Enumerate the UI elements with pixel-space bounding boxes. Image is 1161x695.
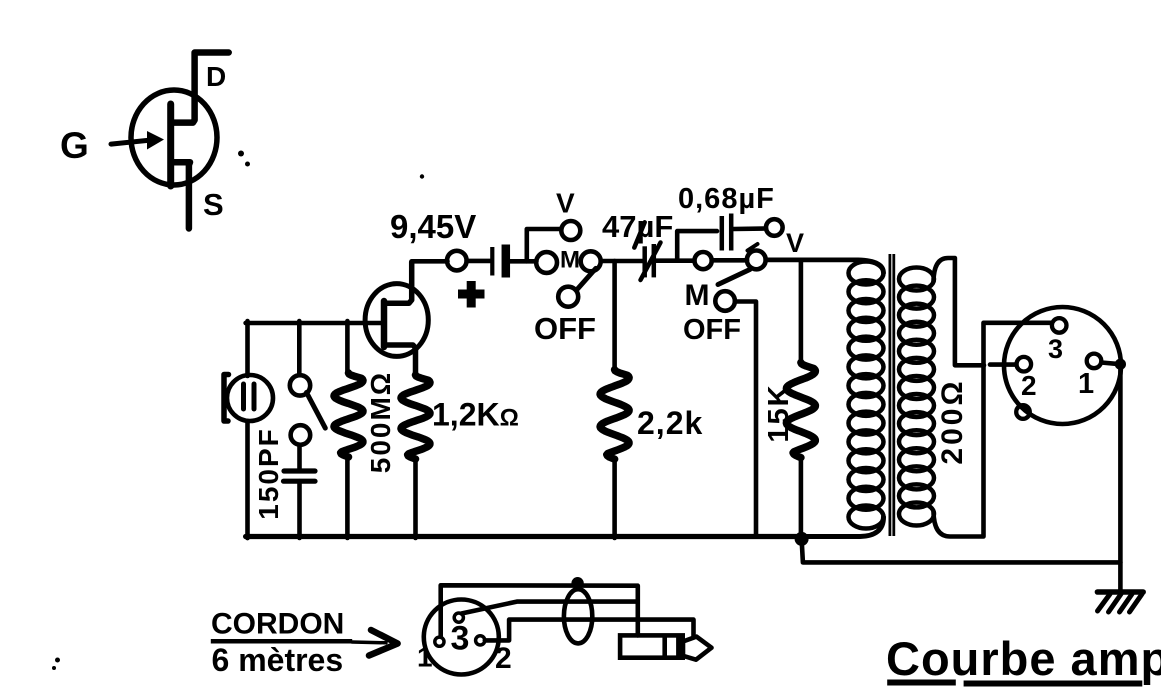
transformer primary winding (coil) [849,262,884,285]
ink speck near battery label [420,174,424,178]
svg-text:0,68µF: 0,68µF [678,183,775,215]
terminal circle V (switch 2) [766,219,783,236]
cord wire 1: pin 1 up and over to jack sleeve [441,585,638,636]
cord plug: body circle [424,600,499,675]
cord plug pin 2 (circle) [476,636,485,645]
svg-text:M: M [560,247,580,274]
switch S arm (open blade) [307,393,326,429]
switch 2 contact OFF (circle) [715,291,735,311]
svg-text:OFF: OFF [683,314,741,346]
transformer core (double line) [889,254,892,536]
svg-text:OFF: OFF [534,311,596,346]
wire: M contact to pole (switch 2) [712,258,747,263]
arrow to cord drawing [352,640,386,644]
switch 1 contact M (circle) [536,252,557,273]
ground symbol: bar [1097,589,1143,595]
cord plug pin 3 (circle) [454,613,463,622]
DIN socket: body circle [1004,307,1121,424]
transistor pictorial: source lead [171,162,190,228]
wire: earth return rail (lower) [802,539,1121,563]
transistor FET: source lead [384,345,416,376]
cord wire 2: pin 3 to jack (middle conductor) [462,602,637,614]
transistor FET (in circuit): body circle [365,284,428,357]
wire: drain to battery terminal [412,259,448,264]
cord plug pin 1 (circle) [435,637,444,646]
switch S contact (upper circle) [290,375,310,395]
switch 1 contact OFF (circle) [558,287,578,307]
microphone: front bracket [224,375,229,422]
capacitor 47uF: polarity slash [641,243,661,281]
wire: branch up to 0,68uF [677,231,717,261]
resistor 1,2K ohm: zigzag body [401,375,430,459]
ink specks near pictorial [238,151,244,157]
switch 2 contact M (circle) [695,252,712,269]
svg-text:3: 3 [451,620,470,658]
resistor 500M ohm: zigzag body [334,373,363,457]
svg-text:9,45V: 9,45V [390,208,476,245]
transistor pictorial: channel bar [167,104,174,186]
resistor 1,2K ohm: bottom wire [413,459,418,538]
svg-text:3: 3 [1048,334,1063,364]
resistor 2,2k: bottom wire [612,459,617,538]
caption underline [887,680,956,686]
junction dot (15K / rail / earth return) [795,532,809,546]
wire: 47uF to switch 2 [656,258,694,263]
jack plug: body [620,635,683,657]
transistor FET: channel bar [381,301,388,347]
wire: mic branch vertical (lower) [245,421,250,538]
resistor 15K: zigzag body [786,363,815,458]
junction dot on cord wire 1 [571,577,583,589]
svg-text:CORDON: CORDON [211,608,344,641]
wire: terminal to battery [467,259,490,264]
svg-text:500MΩ: 500MΩ [365,371,396,474]
wire: switch branch vertical (upper) [297,321,302,375]
transistor pictorial: gate lead with arrow [111,140,149,144]
wire: branch up to V contact (switch 1) [527,229,562,261]
wire: mic branch vertical (upper) [245,321,250,376]
polarity + sign [458,290,485,299]
svg-text:150PF: 150PF [253,427,284,520]
resistor 500M ohm: bottom wire [345,457,350,538]
transformer secondary winding (coil) [899,268,934,291]
microphone: element bars [241,384,246,409]
switch 1 blade to OFF [578,268,596,289]
resistor 15K: bottom wire [799,458,804,539]
battery 9,45V: thin plate [490,247,494,276]
DIN socket pin 2 (circle) [1017,357,1032,372]
svg-text:V: V [556,188,575,219]
wire: gate rail (top-left horizontal) [246,321,384,326]
wire: bottom rail (ground bus) [246,534,802,539]
svg-text:D: D [206,61,226,92]
ink speck bottom-left [55,658,60,663]
svg-text:V: V [786,228,804,258]
capacitor 47uF: plates [642,246,647,277]
switch S contact (lower circle) [291,425,311,445]
underline CORDON [211,639,352,644]
svg-text:G: G [60,125,89,166]
wire: secondary top to pin 2 (crosses pin-3 wire) [934,258,985,365]
svg-text:6 mètres: 6 mètres [212,642,344,678]
cord wire 3: pin 2 to jack tip conductor [485,620,694,641]
wire: battery to switch 1 [510,259,536,264]
ground symbol: hatching [1098,594,1111,611]
svg-text:1: 1 [1078,368,1094,400]
DIN socket cable notch (small circle) [1016,405,1030,419]
svg-text:2: 2 [1021,370,1037,401]
wire: capacitor to bottom rail [297,481,302,538]
switch 1 contact V (circle) [561,221,580,240]
svg-text:47µF: 47µF [602,209,673,244]
terminal circle at drain [447,251,467,271]
wire: bottom rail to primary [802,517,884,537]
svg-text:M: M [685,279,710,312]
transistor pictorial: drain lead [171,53,229,123]
wire: secondary bottom to pin 3 [934,323,1052,537]
svg-text:15K: 15K [763,383,795,442]
wire: drop to 15K resistor [799,260,804,363]
transistor pictorial: FET symbol body circle (top-left legend) [131,90,217,185]
wire: OFF contact down to bottom rail [735,302,756,537]
DIN socket pin 3 (circle) [1052,318,1067,333]
svg-text:2,2k: 2,2k [637,405,703,441]
capacitor 0,68uF: plates [720,216,725,251]
capacitor 47uF: stray pen stroke [634,222,644,247]
resistor 2,2k: zigzag body [600,370,629,459]
wire: 0,68uF to V terminal [734,226,767,231]
microphone: body circle [227,375,273,421]
jack plug: tip [683,637,712,660]
wire: left rail corner [246,537,248,539]
switch 2 blade (open, toward OFF) [718,270,750,285]
wire: drop to 2,2k resistor [612,261,617,370]
wire: switch to capacitor [297,445,302,470]
junction dot (pin 1 / earth wire) [1115,359,1126,370]
resistor 500M ohm: top wire [345,321,350,373]
svg-text:S: S [203,187,224,222]
wire: switch 1 pole to 47uF [601,259,643,264]
cable sheath ellipse [564,589,592,643]
wire: switch 2 pole to transformer primary [766,260,884,273]
jack plug: insulator band [662,635,667,657]
wire: earth drop (right edge) [1118,364,1123,592]
DIN socket pin 1 (circle) [1087,354,1102,369]
switch 1 pole (circle) [581,251,601,271]
switch 2 pole (circle) [747,251,766,270]
svg-text:200Ω: 200Ω [936,378,969,464]
svg-text:1: 1 [417,642,433,673]
battery 9,45V: thick plate [502,245,511,278]
svg-text:Courbe amp: Courbe amp [886,632,1161,685]
wire: pin 1 to earth node [1101,363,1116,364]
svg-text:2: 2 [495,642,512,675]
capacitor under switch: plates [284,468,315,473]
transistor FET: drain lead [384,262,412,303]
